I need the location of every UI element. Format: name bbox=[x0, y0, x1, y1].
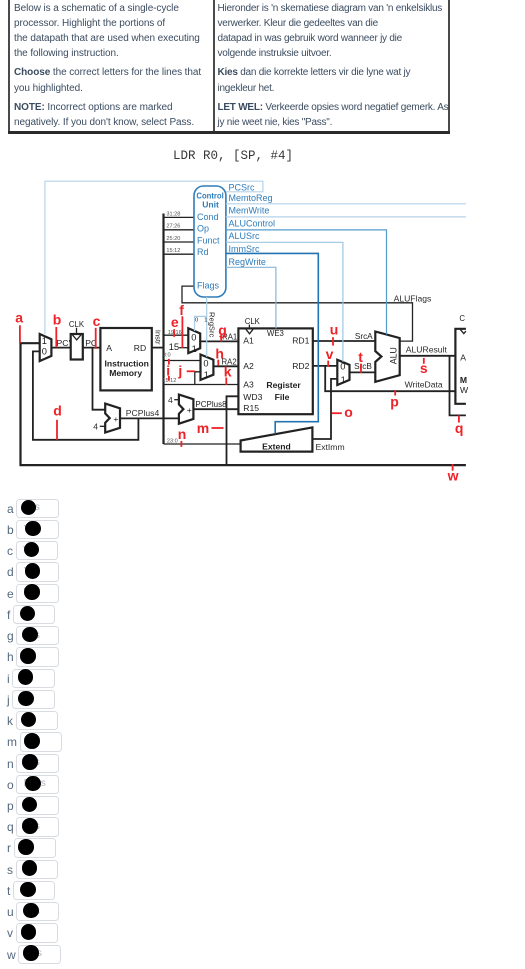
svg-text:1: 1 bbox=[192, 344, 197, 354]
svg-text:PCSrc: PCSrc bbox=[229, 182, 256, 192]
wire Instr[3:0] to RA2 mux input 0 (net i) bbox=[163, 353, 201, 361]
wire PC to Instruction Memory and PCPlus4 (net c) bbox=[83, 338, 105, 410]
svg-text:0: 0 bbox=[203, 359, 208, 369]
marker t bbox=[358, 349, 363, 373]
svg-text:A3: A3 bbox=[243, 379, 254, 389]
svg-text:15: 15 bbox=[169, 342, 180, 353]
svg-text:g: g bbox=[218, 322, 227, 338]
svg-text:ExtImm: ExtImm bbox=[316, 442, 345, 452]
svg-text:1: 1 bbox=[204, 318, 207, 324]
svg-text:ALUFlags: ALUFlags bbox=[394, 293, 432, 303]
adder PCPlus8 bbox=[179, 395, 194, 424]
svg-text:3:0: 3:0 bbox=[163, 353, 171, 359]
marker e bbox=[171, 314, 179, 337]
svg-text:RD: RD bbox=[134, 343, 146, 353]
svg-text:PC': PC' bbox=[57, 338, 71, 348]
svg-text:a: a bbox=[15, 309, 23, 325]
svg-text:25:20: 25:20 bbox=[166, 236, 180, 242]
marker u bbox=[330, 322, 339, 346]
constant 15 to RA1 mux input 1 (net f) bbox=[169, 342, 189, 353]
marker j bbox=[177, 363, 194, 379]
wire Instr[27:26] Op to Control Unit bbox=[164, 224, 195, 230]
control net ALUSrc to SrcB mux bbox=[226, 231, 343, 361]
wire PCPlus8 to R15 bbox=[193, 400, 238, 409]
svg-text:SrcA: SrcA bbox=[355, 332, 373, 341]
control net ALUControl to ALU bbox=[226, 219, 387, 335]
wire PCPlus4 (net to PCPlus8 adder) bbox=[120, 408, 179, 418]
svg-text:W: W bbox=[460, 385, 469, 395]
svg-text:d: d bbox=[53, 403, 62, 419]
svg-text:c: c bbox=[93, 313, 101, 329]
constant 4 into PCPlus4 bbox=[93, 422, 105, 432]
marker b bbox=[53, 312, 62, 348]
svg-text:1: 1 bbox=[42, 336, 47, 346]
control net ImmSrc to Extend bbox=[226, 244, 318, 434]
svg-text:File: File bbox=[275, 392, 290, 402]
svg-text:Memory: Memory bbox=[109, 368, 142, 378]
wire Instr[15:12] Rd to Control Unit bbox=[164, 248, 195, 254]
svg-text:ImmSrc: ImmSrc bbox=[229, 244, 260, 254]
svg-text:4: 4 bbox=[93, 422, 98, 432]
wire Result bus up to WD3 (net m) bbox=[227, 396, 239, 465]
svg-text:15:12: 15:12 bbox=[166, 248, 180, 254]
marker s bbox=[420, 358, 428, 376]
wire Instr[19:16] to RA1 mux input 0 (net e) bbox=[164, 330, 189, 336]
svg-text:CLK: CLK bbox=[69, 320, 85, 329]
marker g bbox=[218, 322, 227, 342]
Instr bus bbox=[153, 214, 163, 445]
control unit bbox=[194, 186, 226, 297]
svg-text:ALU: ALU bbox=[389, 347, 399, 364]
marker o bbox=[332, 404, 353, 420]
svg-text:1: 1 bbox=[341, 375, 346, 385]
control net MemWrite bbox=[226, 206, 466, 217]
svg-text:Unit: Unit bbox=[202, 200, 219, 210]
wire ExtImm to SrcB mux input 1 (net o) bbox=[312, 379, 344, 452]
svg-text:RegSrc: RegSrc bbox=[208, 312, 217, 338]
wire WriteData to data memory (net p) bbox=[325, 366, 455, 391]
mux PCSrc (PC next mux) bbox=[40, 334, 52, 361]
marker n bbox=[178, 426, 187, 447]
svg-text:R15: R15 bbox=[243, 403, 259, 413]
wire branch 15:12 up to RA2 mux input 1 (net j) bbox=[195, 372, 201, 385]
wire RA1 to Register File A1 (net g) bbox=[200, 333, 238, 342]
marker q bbox=[455, 415, 464, 436]
svg-text:0: 0 bbox=[340, 361, 345, 371]
svg-text:ALUResult: ALUResult bbox=[406, 345, 448, 355]
wire Result bus feedback to PC mux input 1 (net a / w) bbox=[21, 343, 466, 465]
svg-text:+: + bbox=[187, 405, 192, 415]
svg-text:27:26: 27:26 bbox=[166, 224, 180, 230]
svg-text:v: v bbox=[326, 346, 334, 362]
control net PCSrc to PC mux select bbox=[45, 181, 263, 334]
mux SrcB (ALUSrc mux) bbox=[337, 360, 349, 385]
svg-text:0: 0 bbox=[42, 346, 47, 356]
svg-text:Instr: Instr bbox=[153, 330, 162, 345]
svg-text:b: b bbox=[53, 312, 62, 328]
marker v bbox=[326, 346, 334, 367]
svg-text:PCPlus8: PCPlus8 bbox=[195, 400, 227, 409]
marker c bbox=[93, 313, 101, 349]
svg-text:t: t bbox=[358, 349, 363, 365]
constant 4 into PCPlus8 bbox=[168, 395, 179, 405]
marker d bbox=[53, 403, 62, 440]
marker h bbox=[215, 346, 224, 366]
wire Instr[31:28] Cond to Control Unit bbox=[164, 211, 195, 217]
svg-text:Instruction: Instruction bbox=[105, 358, 149, 368]
svg-text:o: o bbox=[344, 404, 353, 420]
svg-text:Cond: Cond bbox=[197, 212, 219, 222]
marker m bbox=[197, 420, 224, 436]
svg-text:MemtoReg: MemtoReg bbox=[229, 193, 273, 203]
svg-text:Rd: Rd bbox=[197, 247, 209, 257]
svg-text:0: 0 bbox=[195, 318, 198, 324]
register file bbox=[238, 317, 312, 414]
wire Instr[25:20] Funct to Control Unit bbox=[164, 236, 195, 242]
svg-text:Flags: Flags bbox=[197, 280, 220, 290]
svg-text:31:28: 31:28 bbox=[166, 211, 180, 217]
svg-text:PCPlus4: PCPlus4 bbox=[126, 408, 160, 418]
data memory (clipped) bbox=[455, 314, 469, 404]
svg-text:Op: Op bbox=[197, 224, 209, 234]
wire RD2 to SrcB mux input 0 (net v) bbox=[313, 365, 338, 367]
control net RegSrc to RA1/RA2 muxes bbox=[195, 297, 217, 357]
svg-text:+: + bbox=[113, 414, 118, 424]
svg-text:RegWrite: RegWrite bbox=[229, 257, 266, 267]
svg-text:A: A bbox=[106, 343, 112, 353]
svg-text:MemWrite: MemWrite bbox=[229, 206, 270, 216]
wire RD to Instr bus bbox=[152, 347, 165, 349]
control net MemtoReg bbox=[226, 193, 466, 204]
svg-text:j: j bbox=[177, 363, 182, 379]
wire RA2 to Register File A2 (net h) bbox=[213, 358, 238, 367]
svg-text:k: k bbox=[224, 364, 232, 380]
svg-text:C: C bbox=[459, 314, 465, 323]
svg-text:RD1: RD1 bbox=[292, 336, 309, 346]
svg-text:WE3: WE3 bbox=[267, 329, 284, 338]
svg-text:p: p bbox=[390, 393, 399, 409]
svg-text:1: 1 bbox=[204, 370, 209, 380]
svg-text:Register: Register bbox=[266, 380, 301, 390]
svg-text:f: f bbox=[179, 302, 184, 318]
marker f bbox=[179, 302, 184, 348]
svg-text:WriteData: WriteData bbox=[405, 379, 443, 389]
svg-text:ALUControl: ALUControl bbox=[229, 219, 276, 229]
control net RegWrite to WE3 bbox=[226, 257, 276, 329]
wire PCPlus4 return to PC mux input 0 (net d) bbox=[33, 351, 138, 439]
svg-text:A1: A1 bbox=[243, 336, 254, 346]
instruction memory bbox=[100, 328, 151, 390]
svg-text:A2: A2 bbox=[243, 361, 254, 371]
svg-text:u: u bbox=[330, 322, 339, 338]
adder PCPlus4 bbox=[105, 404, 120, 433]
register PC bbox=[69, 320, 85, 360]
wire Instr[23:0] to Extend (net n) bbox=[164, 439, 241, 445]
wire ALUResult to data memory A (net s) and below memory (net q) bbox=[400, 345, 466, 416]
marker p bbox=[390, 390, 399, 409]
svg-text:A: A bbox=[460, 352, 466, 362]
svg-text:RD2: RD2 bbox=[292, 361, 309, 371]
mux RA2 (RegSrc mux 1) bbox=[201, 355, 214, 381]
mux RA1 (RegSrc mux 0) bbox=[188, 328, 200, 354]
wire Instr[15:12] to A3 (net k) bbox=[162, 378, 238, 385]
svg-text:23:0: 23:0 bbox=[167, 439, 178, 445]
svg-text:CLK: CLK bbox=[245, 317, 261, 326]
svg-text:SrcB: SrcB bbox=[354, 362, 372, 371]
wire PC' (net b) bbox=[51, 338, 70, 348]
marker k bbox=[224, 364, 232, 385]
svg-text:ALUSrc: ALUSrc bbox=[229, 231, 261, 241]
svg-text:0: 0 bbox=[191, 332, 196, 342]
svg-text:4: 4 bbox=[168, 395, 173, 405]
marker a bbox=[15, 309, 23, 343]
wire ALUFlags feedback to Control Unit Flags input bbox=[182, 286, 431, 341]
op-amp style ALU bbox=[375, 332, 399, 382]
wire SrcB to ALU (net t) bbox=[350, 362, 376, 372]
marker i bbox=[166, 359, 170, 381]
svg-text:M: M bbox=[460, 375, 467, 385]
marker w bbox=[447, 464, 459, 483]
wire RD1 / SrcA to ALU (net u) bbox=[313, 332, 376, 341]
svg-text:n: n bbox=[178, 426, 187, 442]
svg-text:h: h bbox=[215, 346, 224, 362]
svg-text:WD3: WD3 bbox=[243, 392, 262, 402]
svg-text:m: m bbox=[197, 420, 209, 436]
svg-text:Extend: Extend bbox=[262, 442, 291, 452]
svg-text:Funct: Funct bbox=[197, 236, 220, 246]
extend unit bbox=[241, 427, 313, 451]
svg-text:e: e bbox=[171, 314, 179, 330]
